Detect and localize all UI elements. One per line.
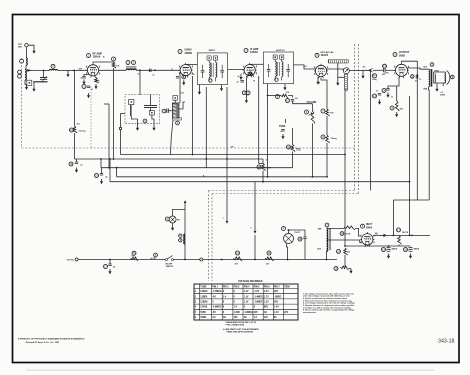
wire r7 down	[326, 116, 328, 135]
capacitor C2 bypass	[82, 77, 85, 79]
capacitor C14	[386, 89, 389, 91]
wire L3 to conv grid	[136, 69, 179, 71]
wire ant to rf grid	[27, 70, 49, 72]
svg-text:AC: AC	[244, 316, 248, 319]
transformer T2 2nd IF ref	[275, 78, 278, 81]
wire det cathode stub	[317, 77, 319, 80]
svg-text:PIN 4: PIN 4	[244, 285, 250, 288]
svg-text:.005: .005	[382, 74, 385, 76]
svg-text:A PRODUCT OF PHOTOFACT STANDAR: A PRODUCT OF PHOTOFACT STANDARD NOTATION…	[18, 337, 85, 340]
wire v3 cathode	[245, 76, 247, 98]
resistor R8 10meg	[326, 135, 330, 143]
ref R16	[340, 232, 344, 236]
svg-text:5meg: 5meg	[372, 79, 376, 81]
speaker SP1	[434, 72, 446, 83]
c20 curve	[409, 250, 413, 253]
svg-text:©Howard W. Sams & Co., Inc. 19: ©Howard W. Sams & Co., Inc. 1957	[25, 341, 60, 344]
capacitor C4 grid	[150, 69, 152, 72]
trimmer square	[27, 80, 32, 85]
ref R15	[267, 251, 271, 255]
svg-text:2.2meg: 2.2meg	[79, 131, 87, 133]
wire drop x285	[285, 119, 287, 123]
wire 140 drop	[139, 70, 141, 95]
wire 200 horiz	[393, 199, 429, 201]
ref C21	[411, 75, 415, 79]
svg-text:12BE6: 12BE6	[184, 52, 192, 55]
svg-text:PIN 3: PIN 3	[234, 286, 240, 288]
wire v4 drop2	[326, 143, 328, 177]
ground V3 cathode	[245, 98, 247, 100]
ballast coil L7	[327, 228, 328, 251]
resistor R15 fil	[265, 257, 274, 261]
svg-text:12BA6: 12BA6	[200, 301, 208, 304]
svg-text:-1.4MEG: -1.4MEG	[254, 295, 263, 298]
svg-text:1.7V: 1.7V	[264, 296, 269, 298]
svg-text:4: 4	[251, 227, 252, 230]
capacitor C11 tone	[281, 130, 284, 132]
ref PL2	[165, 217, 169, 221]
svg-text:AC: AC	[264, 311, 268, 314]
ground box1	[137, 126, 139, 128]
resistor R11	[291, 145, 295, 152]
svg-text:★ SEE PARTS LIST FOR ALTERNAT: ★ SEE PARTS LIST FOR ALTERNATE	[222, 328, 259, 331]
ref R18	[337, 249, 341, 253]
ref R6	[305, 110, 309, 114]
wire jack to bminus	[345, 245, 367, 247]
resistor R13 fuse	[131, 257, 139, 261]
wire bus b3 left	[100, 159, 102, 168]
svg-text:600: 600	[347, 252, 350, 254]
dashed power box left	[209, 191, 213, 282]
ref C9a	[242, 91, 246, 95]
wire V5 cathode	[397, 77, 399, 101]
junction ac cap	[109, 259, 111, 261]
dashed gang line bottom	[22, 147, 356, 149]
ref C10	[286, 99, 290, 103]
c19 curve	[387, 250, 391, 253]
ref V6	[361, 224, 365, 228]
ref V3	[244, 49, 248, 53]
svg-text:.05: .05	[80, 78, 82, 80]
wire loop bottom	[25, 80, 27, 84]
phono jack J1	[343, 68, 349, 74]
junction 412b	[411, 235, 413, 237]
rotor circle	[119, 127, 121, 129]
wire 393 down	[392, 200, 394, 235]
resistor R6 volume pot	[311, 111, 315, 123]
junction avc r5	[267, 95, 269, 97]
ground C19	[388, 254, 390, 256]
loop antenna secondary	[25, 69, 26, 80]
capacitor C7 padder	[167, 108, 169, 113]
svg-text:PIN 7: PIN 7	[274, 286, 280, 288]
ref R5	[276, 95, 280, 99]
svg-text:.02: .02	[91, 89, 93, 91]
wire drop x205	[205, 87, 207, 168]
junction c19	[388, 245, 390, 247]
wire det cathode	[321, 78, 327, 110]
capacitor C18	[303, 237, 306, 239]
resistor R5 det load	[281, 94, 288, 98]
pin arrow x185	[184, 200, 187, 203]
capacitor C13	[378, 94, 381, 96]
junction fil 222	[221, 259, 223, 261]
svg-text:40MFD: 40MFD	[392, 248, 398, 251]
svg-text:1meg: 1meg	[296, 150, 300, 152]
svg-text:117V AC: 117V AC	[67, 258, 75, 261]
wire ballast bottom	[326, 251, 328, 260]
wire jack down	[344, 90, 346, 246]
resistor R16 26ohm	[344, 226, 355, 230]
ground R19	[350, 269, 352, 271]
ground C11	[282, 134, 284, 136]
wire pilot top	[288, 230, 290, 234]
svg-text:35W4: 35W4	[200, 316, 207, 319]
svg-text:12BA6: 12BA6	[250, 51, 258, 54]
svg-text:.02: .02	[247, 95, 249, 97]
ref V5	[393, 53, 397, 57]
ref L2	[51, 64, 55, 68]
wire r12 top	[262, 159, 264, 164]
pot arrow	[309, 112, 313, 115]
ground V3 grid	[240, 75, 242, 77]
wire c17 stub	[109, 260, 111, 265]
ref R14	[236, 251, 240, 255]
capacitor C20 filter	[409, 248, 413, 250]
svg-text:270: 270	[235, 263, 238, 265]
svg-text:20: 20	[376, 91, 378, 93]
junction x192 b1	[192, 154, 194, 156]
wire c16 stub	[101, 168, 103, 174]
transformer T2 2nd IF	[263, 52, 293, 84]
dashed gang line left	[21, 58, 23, 148]
svg-text:68: 68	[253, 81, 255, 83]
svg-text:.005: .005	[295, 98, 298, 100]
resistor R9 cathode 150	[395, 101, 399, 111]
wire rotor to b1	[120, 130, 122, 155]
voltage table grid	[194, 284, 298, 320]
svg-text:26V: 26V	[274, 302, 279, 304]
wire spkr lead2	[442, 83, 444, 86]
ground C17	[109, 269, 111, 271]
junction ant node	[73, 70, 75, 72]
svg-text:26V: 26V	[274, 291, 279, 293]
wire ac line	[78, 259, 165, 261]
wire cathode caps	[388, 86, 397, 89]
wire V3 plate to T2	[250, 63, 263, 65]
ref R7	[321, 109, 325, 113]
ref T3	[430, 63, 434, 67]
wire shield gnd stub	[337, 77, 339, 80]
capacitor C8	[240, 80, 244, 82]
rf choke L2	[49, 69, 57, 70]
wire grid resistor drop	[369, 70, 371, 190]
resistor R17 250ohm	[398, 235, 402, 244]
wire padder2	[168, 110, 172, 112]
capacitor C19 filter	[387, 248, 391, 250]
tube V3 12BA6 IF AMP	[244, 65, 255, 76]
svg-text:VOLUME: VOLUME	[307, 102, 317, 104]
wire box out	[121, 113, 126, 115]
svg-text:22V: 22V	[284, 312, 289, 314]
trimmer wedge	[27, 69, 32, 72]
ground shield	[337, 81, 339, 83]
resistor R7 det	[326, 109, 330, 116]
wire T1 to V3 grid	[228, 69, 244, 71]
svg-text:1.1V: 1.1V	[244, 296, 249, 298]
ref box	[143, 119, 147, 123]
ground R9	[396, 112, 398, 114]
wire s2 to c12	[373, 69, 383, 71]
wire lamp tap	[173, 209, 185, 216]
capacitor C21 plate	[416, 75, 418, 79]
wire plate drop	[409, 96, 411, 236]
ground C13	[379, 100, 381, 102]
osc slug bar	[173, 118, 182, 120]
junction x109 bus	[108, 167, 110, 169]
wire r17 bot	[398, 244, 400, 246]
junction x113 avc	[113, 158, 115, 160]
ref C15	[69, 162, 73, 166]
svg-text:12BA6: 12BA6	[200, 290, 208, 293]
ref R8	[321, 135, 325, 139]
svg-text:.05: .05	[236, 81, 238, 83]
ground 363	[362, 74, 364, 76]
ref L6b	[179, 239, 182, 242]
wire conv pin drop	[179, 73, 181, 104]
wire box gnd2	[152, 115, 154, 126]
wire gnd stub 363	[362, 70, 364, 73]
wire l1 to loop	[25, 65, 27, 69]
wire spkr gnd lead	[436, 83, 438, 87]
svg-text:50B5: 50B5	[399, 55, 406, 58]
svg-text:12BE6: 12BE6	[200, 296, 208, 298]
wire fil to tube	[333, 240, 362, 243]
wire osc grid drop	[192, 76, 194, 155]
ground spkr	[436, 87, 438, 89]
svg-text:.04: .04	[113, 266, 115, 269]
junction b1 jack	[344, 154, 346, 156]
switch S1	[165, 259, 167, 261]
svg-text:PILOT: PILOT	[295, 232, 301, 234]
svg-text:TUBE: TUBE	[200, 286, 207, 288]
junction at 155	[154, 69, 156, 71]
svg-text:12BA6: 12BA6	[93, 56, 101, 59]
junction x267 b4	[267, 176, 269, 178]
svg-text:VOLTAGE READINGS: VOLTAGE READINGS	[238, 280, 263, 283]
dial lamp PL2	[169, 216, 176, 223]
trimmer square B2	[149, 111, 154, 115]
wire drop x109	[108, 104, 110, 168]
ref C7	[162, 109, 166, 113]
ground C16	[101, 179, 103, 181]
wire V1 bypass	[84, 75, 89, 77]
svg-text:* MEASURED FROM PIN 5 OF V6: * MEASURED FROM PIN 5 OF V6	[225, 321, 257, 324]
wire pin x255b	[254, 235, 256, 260]
ref C14	[382, 89, 386, 93]
capacitor gang C1B	[144, 105, 157, 107]
svg-text:.05: .05	[80, 165, 82, 167]
wire avc from grid	[74, 70, 76, 126]
wire x109 top	[104, 103, 109, 105]
scan shadow below frame	[26, 370, 434, 371]
trimmer square B1	[129, 99, 134, 104]
svg-text:CONE: CONE	[440, 95, 446, 97]
ref R17	[397, 228, 401, 232]
capacitor C16	[100, 174, 103, 176]
junction ballast bus	[326, 259, 328, 261]
wire r16 to tube	[355, 228, 361, 236]
wire R2 down bus	[113, 68, 115, 159]
junction c12l	[370, 69, 372, 71]
wire conv plate to T1	[186, 63, 197, 65]
bus B1 y153	[121, 154, 346, 156]
junction x327 b4	[326, 176, 328, 178]
svg-text:-1.2V: -1.2V	[254, 291, 260, 293]
junction pilot bus	[287, 259, 289, 261]
connector circle	[200, 258, 203, 261]
svg-text:.05: .05	[391, 97, 393, 99]
svg-text:1.2V: 1.2V	[264, 291, 269, 293]
tuning cap C1A	[40, 78, 47, 80]
resistor R4	[248, 73, 254, 77]
svg-text:.01: .01	[415, 81, 417, 83]
svg-text:.01: .01	[419, 79, 421, 81]
ground dial lamp	[172, 226, 174, 228]
ground T1	[221, 86, 223, 88]
ref C9b	[246, 91, 250, 95]
coil L6 on x185	[184, 234, 185, 244]
svg-text:ITEM: ITEM	[284, 286, 290, 288]
wire box drop1	[150, 95, 152, 106]
pilot lamp PL1	[284, 234, 294, 244]
wire T1 gnd stub	[221, 85, 223, 87]
ref C2a	[82, 85, 86, 89]
antenna coil L1 primary	[26, 58, 27, 66]
wire lamp gnd	[172, 223, 174, 226]
ref R9	[390, 106, 394, 110]
wire box1 left stub	[198, 85, 200, 90]
svg-text:SWITCH: SWITCH	[166, 266, 174, 268]
svg-text:88V: 88V	[264, 307, 269, 309]
gang plate bar	[130, 105, 131, 116]
oscillator coil L4	[172, 103, 179, 118]
ref C3	[132, 61, 136, 65]
svg-text:PIN 1: PIN 1	[212, 286, 218, 288]
wire ballast plate feed	[327, 227, 345, 229]
pin arrow x255	[254, 231, 257, 234]
ref C19	[382, 248, 386, 252]
bus B4 y176.8	[117, 176, 327, 178]
svg-text:1.1V: 1.1V	[274, 312, 279, 314]
ground R1	[95, 84, 97, 86]
svg-text:1.1V: 1.1V	[244, 291, 249, 293]
dashed link rf	[90, 86, 92, 148]
box trimmers	[125, 95, 160, 124]
junction jack 246	[344, 245, 346, 247]
wire plate to coil	[99, 69, 126, 71]
ref R12	[257, 165, 261, 169]
wire det out right	[327, 69, 344, 71]
wire drop x267	[267, 84, 269, 177]
svg-text:PIN 2: PIN 2	[223, 286, 229, 288]
svg-text:AC: AC	[223, 316, 227, 319]
wire r5 to c10	[288, 96, 293, 98]
ref R2	[112, 57, 116, 61]
junction bus b4	[116, 167, 118, 169]
svg-text:1.2V: 1.2V	[264, 302, 269, 304]
svg-text:.005: .005	[362, 67, 365, 69]
tube V2 12BE6 CONV	[180, 65, 191, 76]
svg-text:.05: .05	[152, 75, 154, 77]
wire det to output grid	[349, 69, 368, 71]
ref L6a	[179, 234, 182, 237]
svg-text:PIN 6: PIN 6	[264, 286, 270, 288]
ground ant line	[67, 72, 69, 74]
wire bus b4 left	[116, 168, 118, 177]
svg-text:343-18: 343-18	[438, 339, 455, 345]
wire box gnd1	[131, 116, 137, 126]
wire T2 to det	[294, 65, 316, 69]
capacitor C10	[291, 100, 294, 102]
ground C2	[83, 80, 85, 82]
ref L3	[126, 61, 130, 65]
tube V4 12AV6	[315, 65, 326, 76]
wire T2 gnd stub	[284, 84, 286, 86]
wire c18 up	[304, 230, 306, 237]
osc terminal square	[173, 96, 178, 101]
wire r12 bot	[262, 171, 264, 182]
svg-text:1.4V: 1.4V	[274, 306, 279, 309]
svg-text:12AV6: 12AV6	[321, 54, 329, 57]
capacitor C15 avc	[75, 162, 78, 164]
ground V2 cathode	[183, 80, 185, 82]
junction fil 255	[254, 259, 256, 261]
wire x185 down	[184, 203, 186, 260]
ground box2	[153, 126, 155, 128]
junction x205 b2	[205, 158, 207, 160]
svg-text:.05: .05	[105, 177, 107, 179]
svg-text:270: 270	[266, 263, 269, 265]
wire r18 down	[344, 255, 346, 267]
wire drop x227	[226, 87, 228, 221]
ground det cathode	[317, 80, 319, 82]
wire osc top	[174, 100, 176, 103]
ref C16	[95, 174, 99, 178]
junction x185 bus	[184, 259, 186, 261]
ref C20	[404, 248, 408, 252]
junction bus b5	[109, 158, 111, 160]
junction x313 b4	[312, 176, 314, 178]
resistor R12	[262, 164, 266, 171]
ref V1	[87, 54, 91, 58]
wire bus b5 left	[109, 159, 111, 182]
junction at 140	[139, 69, 141, 71]
svg-text:26 1W: 26 1W	[266, 168, 272, 170]
tube V6 35W4 RECT	[362, 234, 373, 245]
ref C12	[383, 64, 387, 68]
wire V3 cathode drop	[258, 76, 260, 164]
resistor R14 fil	[234, 257, 243, 261]
wire c10 to pot	[293, 101, 313, 104]
ref SP1	[451, 75, 455, 79]
svg-text:35W4: 35W4	[366, 227, 373, 230]
svg-text:47: 47	[138, 73, 140, 76]
resistor R19 bottom	[341, 266, 349, 270]
svg-text:26 1W: 26 1W	[345, 234, 350, 236]
junction 409b	[409, 235, 411, 237]
ground loop	[26, 85, 28, 87]
